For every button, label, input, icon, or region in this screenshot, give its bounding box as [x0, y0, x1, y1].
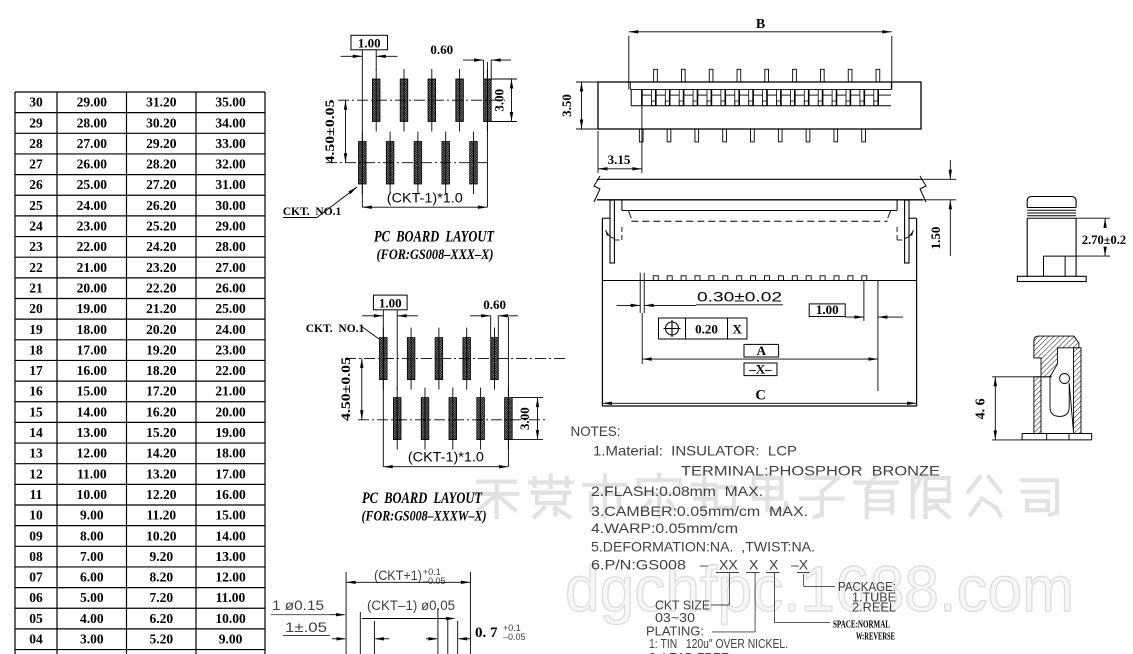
svg-text:30: 30 — [29, 95, 43, 110]
svg-text:5.20: 5.20 — [149, 632, 173, 647]
svg-text:–X–: –X– — [748, 361, 772, 376]
svg-text:4.50±0.05: 4.50±0.05 — [339, 357, 353, 421]
svg-text:3.00: 3.00 — [492, 89, 507, 112]
svg-text:22.00: 22.00 — [77, 239, 108, 254]
svg-text:15.00: 15.00 — [77, 384, 108, 399]
svg-text:12.20: 12.20 — [146, 487, 177, 502]
svg-text:17.00: 17.00 — [77, 342, 108, 357]
svg-text:22: 22 — [29, 260, 43, 275]
svg-text:10: 10 — [29, 508, 43, 523]
svg-text:12: 12 — [29, 466, 43, 481]
svg-text:–X: –X — [791, 557, 809, 573]
svg-text:24.00: 24.00 — [215, 322, 246, 337]
svg-text:29.00: 29.00 — [215, 219, 246, 234]
svg-text:XX: XX — [719, 557, 738, 573]
svg-text:CKT. NO.1: CKT. NO.1 — [283, 206, 342, 218]
svg-text:27.00: 27.00 — [77, 136, 108, 151]
svg-text:32.00: 32.00 — [215, 157, 246, 172]
svg-text:4.WARP:0.05mm/cm: 4.WARP:0.05mm/cm — [591, 520, 738, 536]
svg-text:19.00: 19.00 — [77, 301, 108, 316]
svg-text:11: 11 — [30, 487, 43, 502]
svg-text:29.20: 29.20 — [146, 136, 177, 151]
svg-text:12.00: 12.00 — [215, 570, 246, 585]
svg-text:13.20: 13.20 — [146, 466, 177, 481]
svg-text:5.00: 5.00 — [80, 590, 104, 605]
svg-text:14.00: 14.00 — [77, 404, 108, 419]
svg-text:25.20: 25.20 — [146, 219, 177, 234]
svg-text:TERMINAL:PHOSPHOR BRONZE: TERMINAL:PHOSPHOR BRONZE — [681, 463, 940, 479]
svg-text:27: 27 — [29, 157, 43, 172]
svg-text:0.30±0.02: 0.30±0.02 — [697, 289, 782, 305]
svg-text:19: 19 — [29, 322, 43, 337]
svg-text:1±.05: 1±.05 — [285, 620, 327, 635]
svg-text:15.00: 15.00 — [215, 508, 246, 523]
svg-text:1 ø0.15: 1 ø0.15 — [272, 598, 324, 613]
svg-text:3.00: 3.00 — [80, 632, 104, 647]
svg-text:7.20: 7.20 — [149, 590, 173, 605]
svg-text:11.00: 11.00 — [77, 466, 107, 481]
svg-text:0.20: 0.20 — [695, 322, 718, 337]
svg-text:10.00: 10.00 — [215, 611, 246, 626]
svg-text:26: 26 — [29, 177, 43, 192]
svg-text:10.20: 10.20 — [146, 528, 177, 543]
svg-text:17.20: 17.20 — [146, 384, 177, 399]
svg-text:33.00: 33.00 — [215, 136, 246, 151]
svg-text:16.00: 16.00 — [215, 487, 246, 502]
svg-text:25.00: 25.00 — [77, 177, 108, 192]
svg-text:13: 13 — [29, 446, 43, 461]
svg-text:30.00: 30.00 — [215, 198, 246, 213]
svg-text:16.20: 16.20 — [146, 404, 177, 419]
svg-text:21: 21 — [29, 280, 43, 295]
svg-text:5.DEFORMATION:NA. ,TWIST:NA.: 5.DEFORMATION:NA. ,TWIST:NA. — [591, 539, 815, 555]
svg-text:15: 15 — [29, 404, 43, 419]
svg-text:28: 28 — [29, 136, 43, 151]
svg-text:06: 06 — [29, 590, 43, 605]
svg-text:A: A — [757, 343, 767, 358]
svg-text:(FOR:GS008–XXXW–X): (FOR:GS008–XXXW–X) — [362, 509, 487, 525]
svg-text:PC BOARD LAYOUT: PC BOARD LAYOUT — [374, 229, 494, 246]
svg-text:3.CAMBER:0.05mm/cm MAX.: 3.CAMBER:0.05mm/cm MAX. — [591, 503, 808, 519]
svg-text:1.00: 1.00 — [379, 296, 402, 311]
svg-text:29: 29 — [29, 115, 43, 130]
svg-text:26.00: 26.00 — [77, 157, 108, 172]
svg-text:16.00: 16.00 — [77, 363, 108, 378]
svg-text:9.20: 9.20 — [149, 549, 173, 564]
svg-text:24.20: 24.20 — [146, 239, 177, 254]
svg-text:25: 25 — [29, 198, 43, 213]
svg-text:1.50: 1.50 — [928, 227, 943, 250]
svg-text:18.20: 18.20 — [146, 363, 177, 378]
svg-text:(CKT–1) ø0.05: (CKT–1) ø0.05 — [367, 598, 455, 613]
svg-text:2.70±0.2: 2.70±0.2 — [1082, 233, 1126, 247]
svg-text:9.00: 9.00 — [80, 508, 104, 523]
svg-text:13.00: 13.00 — [77, 425, 108, 440]
svg-text:14: 14 — [29, 425, 43, 440]
svg-text:27.20: 27.20 — [146, 177, 177, 192]
svg-text:2: LEAD FREE: 2: LEAD FREE — [649, 650, 729, 654]
svg-text:05: 05 — [29, 611, 43, 626]
svg-text:15.20: 15.20 — [146, 425, 177, 440]
svg-text:19.00: 19.00 — [215, 425, 246, 440]
svg-text:23: 23 — [29, 239, 43, 254]
svg-text:NOTES:: NOTES: — [571, 423, 621, 439]
svg-text:1.00: 1.00 — [816, 302, 839, 317]
svg-text:34.00: 34.00 — [215, 115, 246, 130]
svg-text:24.00: 24.00 — [77, 198, 108, 213]
svg-text:20.00: 20.00 — [215, 404, 246, 419]
svg-text:SPACE:NORMAL: SPACE:NORMAL — [833, 620, 890, 631]
svg-text:18: 18 — [29, 342, 43, 357]
svg-text:X: X — [749, 557, 759, 573]
svg-text:21.20: 21.20 — [146, 301, 177, 316]
svg-text:16: 16 — [29, 384, 43, 399]
svg-text:–: – — [700, 557, 708, 573]
svg-text:23.20: 23.20 — [146, 260, 177, 275]
svg-text:20.20: 20.20 — [146, 322, 177, 337]
svg-text:19.20: 19.20 — [146, 342, 177, 357]
svg-text:18.00: 18.00 — [215, 446, 246, 461]
svg-text:14.20: 14.20 — [146, 446, 177, 461]
svg-text:31.00: 31.00 — [215, 177, 246, 192]
svg-text:11.00: 11.00 — [216, 590, 246, 605]
svg-text:4.00: 4.00 — [80, 611, 104, 626]
svg-text:3.15: 3.15 — [608, 152, 631, 167]
svg-text:29.00: 29.00 — [77, 95, 108, 110]
svg-text:8.20: 8.20 — [149, 570, 173, 585]
svg-text:08: 08 — [29, 549, 43, 564]
svg-text:–0.05: –0.05 — [423, 576, 446, 586]
svg-text:1.00: 1.00 — [358, 36, 381, 51]
svg-text:10.00: 10.00 — [77, 487, 108, 502]
svg-text:7.00: 7.00 — [80, 549, 104, 564]
svg-text:PC BOARD LAYOUT: PC BOARD LAYOUT — [362, 490, 482, 507]
svg-text:12.00: 12.00 — [77, 446, 108, 461]
svg-text:X: X — [733, 322, 743, 337]
svg-text:–0.05: –0.05 — [503, 632, 526, 642]
svg-text:31.20: 31.20 — [146, 95, 177, 110]
svg-text:30.20: 30.20 — [146, 115, 177, 130]
svg-text:6.20: 6.20 — [149, 611, 173, 626]
svg-text:(CKT-1)*1.0: (CKT-1)*1.0 — [387, 191, 463, 206]
svg-text:4. 6: 4. 6 — [974, 398, 989, 419]
svg-text:27.00: 27.00 — [215, 260, 246, 275]
svg-text:17: 17 — [29, 363, 43, 378]
svg-text:9.00: 9.00 — [219, 632, 243, 647]
svg-text:X: X — [769, 557, 779, 573]
svg-text:3.00: 3.00 — [517, 407, 532, 430]
svg-text:22.00: 22.00 — [215, 363, 246, 378]
svg-text:11.20: 11.20 — [146, 508, 176, 523]
svg-text:0.60: 0.60 — [430, 42, 453, 57]
svg-text:35.00: 35.00 — [215, 95, 246, 110]
svg-text:1.Material: INSULATOR: LCP: 1.Material: INSULATOR: LCP — [593, 443, 797, 459]
svg-text:8.00: 8.00 — [80, 528, 104, 543]
svg-text:1: TIN 120u" OVER NICKEL.: 1: TIN 120u" OVER NICKEL. — [649, 637, 788, 651]
svg-text:6.P/N:GS008: 6.P/N:GS008 — [591, 557, 686, 573]
svg-text:C: C — [755, 388, 765, 404]
svg-text:0.60: 0.60 — [483, 297, 506, 312]
svg-text:18.00: 18.00 — [77, 322, 108, 337]
svg-text:6.00: 6.00 — [80, 570, 104, 585]
svg-text:20: 20 — [29, 301, 43, 316]
svg-text:09: 09 — [29, 528, 43, 543]
svg-text:B: B — [756, 17, 765, 32]
svg-text:22.20: 22.20 — [146, 280, 177, 295]
svg-text:28.00: 28.00 — [77, 115, 108, 130]
svg-text:2.REEL: 2.REEL — [852, 600, 896, 615]
svg-text:0. 7: 0. 7 — [475, 625, 498, 641]
svg-text:4.50±0.05: 4.50±0.05 — [323, 100, 337, 164]
svg-text:3.50: 3.50 — [559, 94, 574, 117]
svg-text:2.FLASH:0.08mm MAX.: 2.FLASH:0.08mm MAX. — [591, 483, 763, 499]
svg-text:13.00: 13.00 — [215, 549, 246, 564]
svg-text:26.00: 26.00 — [215, 280, 246, 295]
svg-text:26.20: 26.20 — [146, 198, 177, 213]
svg-text:(CKT-1)*1.0: (CKT-1)*1.0 — [408, 450, 484, 465]
svg-text:17.00: 17.00 — [215, 466, 246, 481]
svg-text:20.00: 20.00 — [77, 280, 108, 295]
svg-text:(CKT+1): (CKT+1) — [374, 567, 422, 583]
svg-text:14.00: 14.00 — [215, 528, 246, 543]
svg-text:(FOR:GS008–XXX–X): (FOR:GS008–XXX–X) — [377, 247, 494, 263]
svg-text:CKT. NO.1: CKT. NO.1 — [306, 323, 365, 335]
svg-text:25.00: 25.00 — [215, 301, 246, 316]
svg-text:21.00: 21.00 — [215, 384, 246, 399]
svg-text:23.00: 23.00 — [77, 219, 108, 234]
svg-text:07: 07 — [29, 570, 43, 585]
svg-text:23.00: 23.00 — [215, 342, 246, 357]
svg-text:W:REVERSE: W:REVERSE — [856, 632, 895, 643]
svg-text:28.20: 28.20 — [146, 157, 177, 172]
svg-text:24: 24 — [29, 219, 43, 234]
svg-text:28.00: 28.00 — [215, 239, 246, 254]
svg-text:21.00: 21.00 — [77, 260, 108, 275]
svg-text:04: 04 — [29, 632, 43, 647]
